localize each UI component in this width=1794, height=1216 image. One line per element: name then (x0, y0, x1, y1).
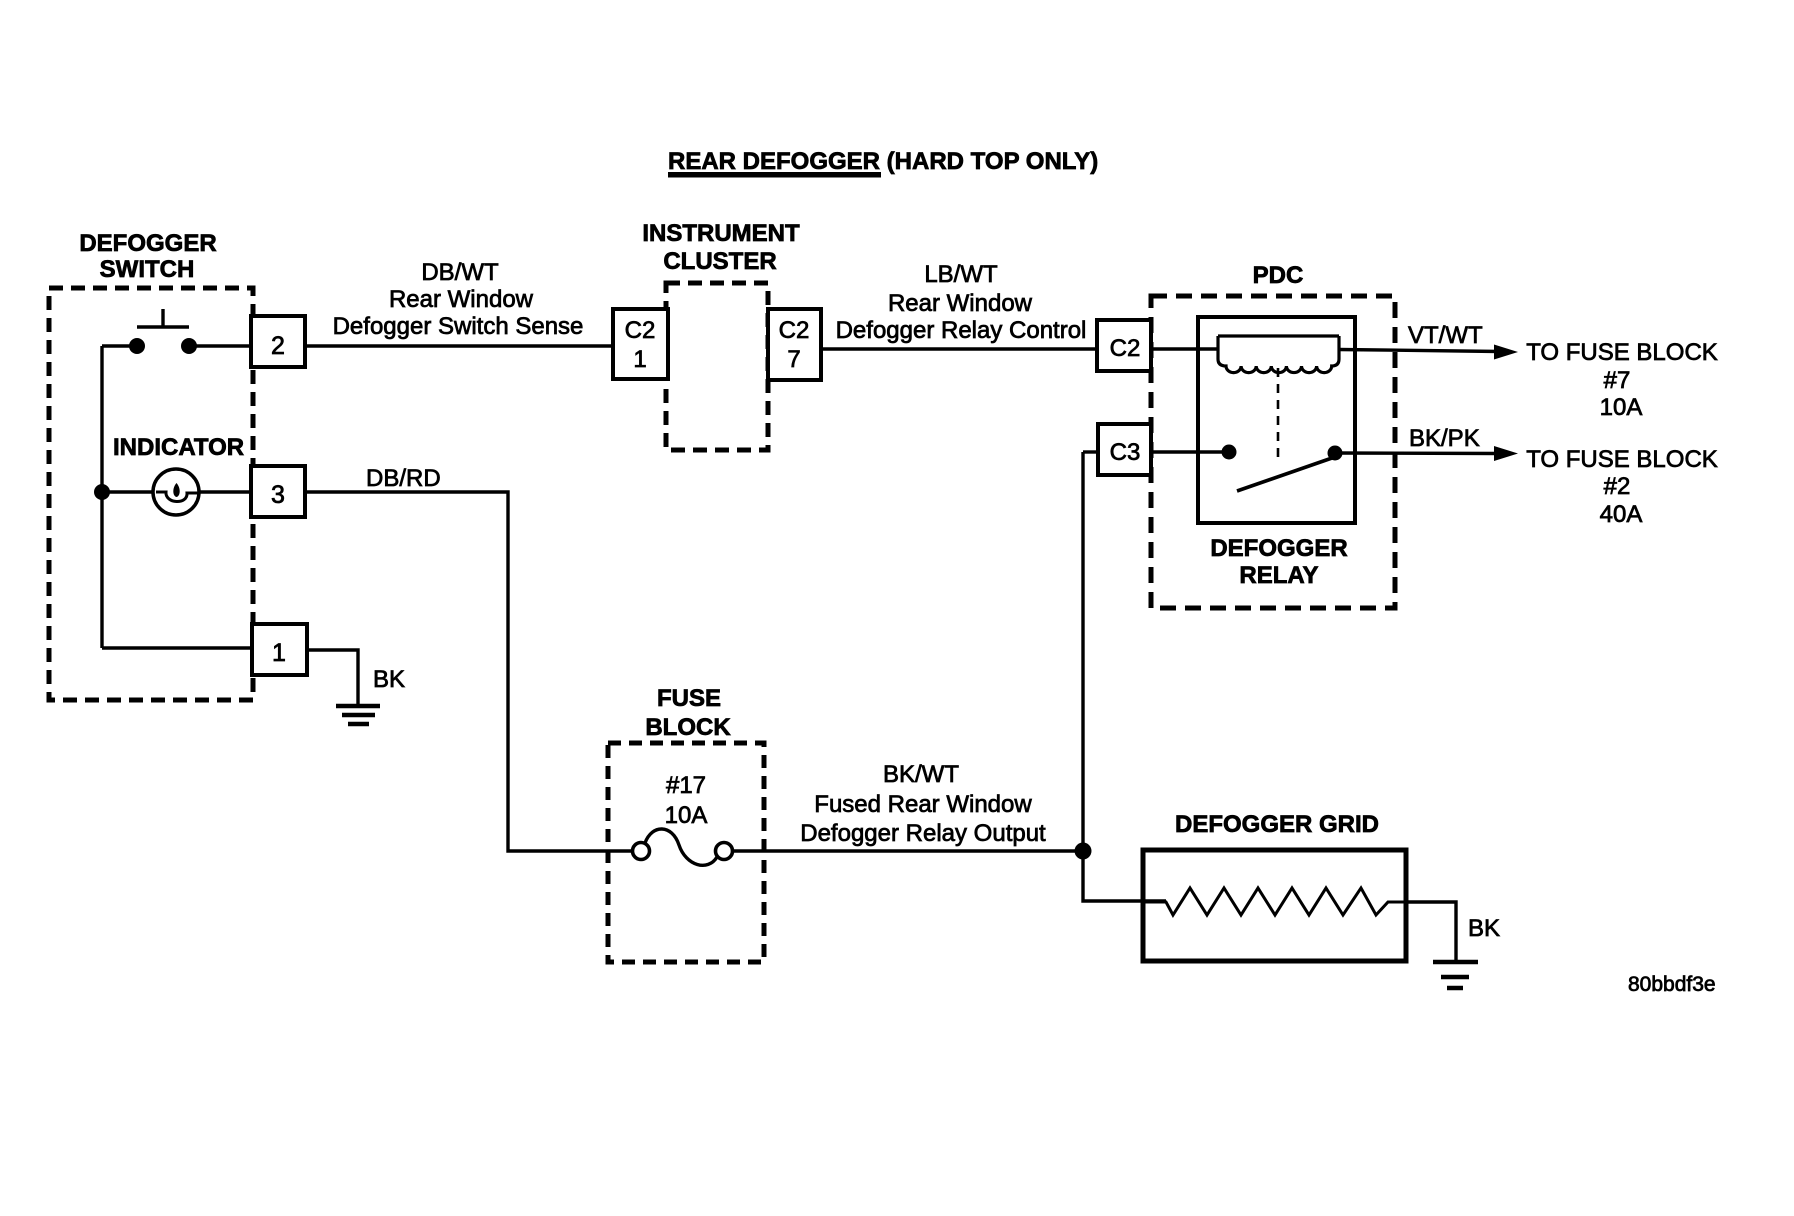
PDC dashed box (1151, 296, 1395, 608)
defogger switch dashed box (49, 288, 253, 700)
relay blade (1237, 458, 1332, 491)
wire vertical C3 to grid row (1083, 452, 1166, 901)
svg-text:Rear Window: Rear Window (888, 290, 1033, 317)
svg-text:CLUSTER: CLUSTER (663, 248, 776, 275)
wire right switch contact to pin 2 (189, 344, 253, 347)
svg-text:C2: C2 (1110, 335, 1141, 362)
arrow head to fuse block 2 (1494, 446, 1518, 461)
wire pin1 row (102, 646, 253, 649)
svg-text:80bbdf3e: 80bbdf3e (1628, 973, 1716, 996)
defogger grid resistor zigzag (1145, 888, 1406, 915)
connector C2 pin 1 box (613, 309, 668, 379)
svg-text:DEFOGGER: DEFOGGER (79, 230, 216, 257)
connector C2 pin 7 box (768, 309, 821, 380)
wire switch left vertical (100, 346, 103, 648)
fuse F17 right terminal (716, 843, 733, 860)
svg-text:1: 1 (633, 346, 646, 373)
relay coil (1218, 336, 1339, 373)
wire contact to BK/PK arrow (1335, 451, 1500, 455)
svg-text:BK/WT: BK/WT (883, 761, 959, 788)
svg-text:Defogger Switch Sense: Defogger Switch Sense (333, 313, 584, 340)
svg-text:SWITCH: SWITCH (100, 256, 195, 283)
svg-text:C2: C2 (779, 317, 810, 344)
pin 2 box (251, 316, 305, 367)
svg-text:DB/RD: DB/RD (366, 465, 441, 492)
svg-text:10A: 10A (1600, 394, 1643, 421)
svg-text:REAR DEFOGGER (HARD TOP ONLY): REAR DEFOGGER (HARD TOP ONLY) (668, 148, 1098, 175)
pin 3 box (251, 466, 305, 517)
instrument cluster dashed box (666, 283, 768, 450)
relay contact dot right (1328, 446, 1343, 461)
switch contact dot left (129, 338, 145, 354)
svg-text:RELAY: RELAY (1239, 562, 1318, 589)
svg-text:C3: C3 (1110, 439, 1141, 466)
ground G2 (1433, 962, 1478, 988)
svg-text:C2: C2 (625, 317, 656, 344)
fuse block dashed box (608, 743, 764, 962)
svg-text:BLOCK: BLOCK (645, 714, 731, 741)
relay contact dot left (1222, 445, 1237, 460)
defogger grid box (1143, 850, 1406, 961)
svg-text:7: 7 (787, 346, 800, 373)
connector C3 PDC box (1098, 424, 1151, 475)
svg-text:DEFOGGER GRID: DEFOGGER GRID (1175, 811, 1379, 838)
svg-text:PDC: PDC (1253, 262, 1304, 289)
svg-text:BK/PK: BK/PK (1409, 425, 1480, 452)
svg-text:INSTRUMENT: INSTRUMENT (642, 220, 800, 247)
svg-text:Defogger Relay Control: Defogger Relay Control (836, 317, 1087, 344)
pushbutton switch plunger (161, 309, 164, 327)
junction node on left wire (94, 484, 110, 500)
wire C3 down to junction and grid (1083, 450, 1098, 453)
svg-text:DEFOGGER: DEFOGGER (1210, 535, 1347, 562)
svg-text:INDICATOR: INDICATOR (113, 434, 244, 461)
svg-text:1: 1 (272, 639, 286, 667)
svg-text:#7: #7 (1604, 367, 1631, 394)
svg-text:Rear Window: Rear Window (389, 286, 534, 313)
svg-text:TO FUSE BLOCK: TO FUSE BLOCK (1526, 339, 1718, 366)
wire C2 to relay coil (1151, 347, 1218, 350)
svg-text:DB/WT: DB/WT (421, 259, 499, 286)
svg-text:2: 2 (271, 332, 285, 360)
wire pin3 DB/RD to fuse block (305, 492, 631, 851)
wire indicator row (102, 490, 253, 493)
svg-text:40A: 40A (1600, 501, 1643, 528)
svg-text:TO FUSE BLOCK: TO FUSE BLOCK (1526, 446, 1718, 473)
fuse F17 left terminal (633, 843, 650, 860)
junction node dot (1075, 843, 1092, 860)
svg-text:LB/WT: LB/WT (924, 261, 998, 288)
title underline (668, 172, 881, 178)
svg-text:BK: BK (1468, 915, 1500, 942)
svg-text:3: 3 (271, 481, 285, 509)
fuse F17 element curve (645, 829, 717, 865)
wire C3 to relay contact (1151, 450, 1229, 453)
wire fuse to junction (733, 849, 1083, 852)
pushbutton switch bar (137, 325, 189, 328)
arrow head to fuse block 7 (1494, 345, 1518, 360)
svg-text:FUSE: FUSE (657, 685, 721, 712)
connector C2 PDC box (1097, 320, 1151, 371)
defogger relay box (1198, 317, 1355, 523)
svg-text:Defogger Relay Output: Defogger Relay Output (800, 820, 1046, 847)
relay coil-contact dashed link (1277, 368, 1280, 462)
indicator lamp (153, 469, 199, 515)
svg-text:#2: #2 (1604, 473, 1631, 500)
svg-text:10A: 10A (665, 802, 708, 829)
svg-text:#17: #17 (666, 772, 706, 799)
wire to left switch contact (102, 344, 137, 347)
svg-text:BK: BK (373, 666, 405, 693)
svg-text:Fused Rear Window: Fused Rear Window (814, 791, 1032, 818)
switch contact dot right (181, 338, 197, 354)
wire pin1 to ground (307, 650, 358, 704)
indicator lamp filament (156, 492, 198, 502)
wire grid to ground (1406, 902, 1456, 960)
pin 1 box (252, 624, 307, 675)
wire pin2 to instrument cluster C2-1 (305, 344, 613, 347)
wire coil to VT/WT arrow (1339, 350, 1500, 352)
svg-text:VT/WT: VT/WT (1408, 322, 1483, 349)
ground G1 (336, 706, 380, 724)
wire cluster C2-7 to PDC C2 (821, 347, 1097, 350)
indicator lamp flame (173, 483, 179, 497)
